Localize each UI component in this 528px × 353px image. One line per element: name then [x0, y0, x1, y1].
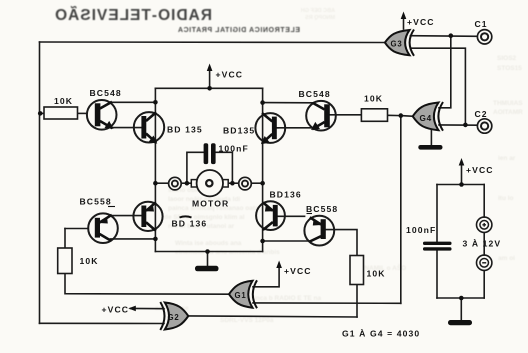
node: motor left — [153, 181, 158, 186]
wire: R1 to Q1 base — [78, 112, 88, 114]
svg-text:SIOS2: SIOS2 — [497, 55, 517, 62]
svg-text:BC558: BC558 — [80, 197, 112, 207]
wire: G4 output — [401, 115, 413, 118]
svg-text:itu lo: itu lo — [498, 195, 514, 202]
wire: G3 lower input to C2 node — [411, 48, 466, 125]
wire: G4 node vertical down — [400, 116, 402, 304]
VCC arrow at G2 (points left) — [128, 306, 136, 312]
op-gate G2 XOR (mirrored, points right) — [160, 302, 188, 330]
svg-text:RADIO-TELEVISÃO: RADIO-TELEVISÃO — [54, 6, 212, 24]
wire: G4 ground stub — [430, 130, 432, 146]
wire: R3 bottom lead to G1 output — [65, 274, 229, 295]
wire: Q2 emitter to Q4 base — [277, 127, 313, 129]
svg-text:BD 136: BD 136 — [172, 219, 208, 229]
transistor Q4 BD135 right — [255, 113, 285, 144]
ground under G4 — [418, 145, 442, 150]
svg-text:THMUIAS: THMUIAS — [493, 100, 523, 107]
svg-text:10K: 10K — [364, 94, 383, 104]
svg-text:100nF: 100nF — [219, 143, 249, 153]
transistor Q2 BC548 top-right — [306, 101, 336, 131]
motor M1 — [191, 170, 228, 196]
svg-text:+VCC: +VCC — [284, 266, 312, 276]
capacitor C-battery 100nF — [423, 242, 452, 251]
svg-text:etnemom du anu amsenta d anbis: etnemom du anu amsenta d anbis — [175, 249, 280, 256]
resistor R1 10K top-left — [44, 107, 78, 119]
resistor R3 10K bottom-left — [58, 248, 72, 274]
wire: top rail from left rail to G3 output — [40, 41, 385, 44]
wire: motor left lead — [155, 182, 168, 184]
svg-text:ABC DEF GH: ABC DEF GH — [301, 8, 335, 14]
wire: motor to jack J2 — [228, 182, 239, 184]
wire: Q7 base lead — [278, 215, 305, 217]
node: Q2 collector at trunk — [260, 100, 265, 105]
wire: battery bottom rail — [437, 297, 484, 299]
wire: battery right leg lower — [483, 271, 485, 298]
svg-text:ELETRONICA DIGITAL PRATICA: ELETRONICA DIGITAL PRATICA — [177, 27, 300, 34]
battery terminal positive — [477, 217, 492, 232]
svg-text:BD 135: BD 135 — [167, 125, 203, 135]
capacitor C-motor 100nF — [204, 143, 216, 164]
svg-text:MNOPQ RS: MNOPQ RS — [305, 15, 335, 21]
wire: left vertical rail — [39, 42, 41, 323]
svg-text:Winta ise abouds ana: Winta ise abouds ana — [175, 240, 242, 247]
wire: G3 top input to C1 — [411, 35, 478, 38]
transistor Q6 BC558 bottom-left — [88, 213, 118, 243]
battery terminal negative — [477, 255, 492, 270]
wire: Q6 collector to trunk dot — [111, 238, 156, 240]
ghost paragraph blobs — [155, 55, 523, 324]
node: C2 branch — [463, 123, 468, 128]
wire: battery top rail — [437, 184, 484, 186]
svg-text:10K: 10K — [54, 96, 73, 106]
wire: R4 down to G2 output corner — [356, 285, 358, 318]
svg-text:+VCC: +VCC — [407, 17, 435, 27]
VCC arrow over G3 — [401, 12, 407, 20]
resistor R4 10K bottom-right — [350, 256, 364, 285]
wire: ground stub center — [207, 252, 209, 267]
wire: Q6 emitter to Q5 base — [112, 215, 142, 217]
wire: Q6 base from R3 — [65, 228, 88, 230]
wire: C1cap bracket left — [187, 152, 204, 183]
node: ground tap center — [205, 249, 210, 254]
svg-text:3 À 12V: 3 À 12V — [463, 238, 502, 248]
wire: +VCC top rail of bridge — [155, 87, 262, 89]
node: +VCC tap bridge — [207, 86, 212, 91]
wire: G2 top input from +VCC arrow — [131, 307, 165, 309]
wire: jack J2 to right trunk — [252, 182, 263, 184]
node: cap bracket right — [230, 181, 235, 186]
wire: Q8 collector to trunk — [263, 240, 310, 242]
node: battery +VCC tap — [459, 182, 464, 187]
wire: jack J1 to motor — [181, 182, 191, 184]
svg-text:BC548: BC548 — [299, 89, 331, 99]
transistor Q8 BC558 bottom-right — [304, 216, 334, 246]
wire: left rail to R1 — [40, 112, 45, 114]
ground battery — [448, 320, 472, 325]
MAIN SCHEMATIC — [40, 16, 485, 324]
ghost show-through headline — [54, 6, 335, 34]
node: Q8 collector at trunk — [260, 239, 265, 244]
op-gate G4 XOR — [413, 102, 443, 131]
node: Q1 collector at trunk — [153, 100, 158, 105]
wire: +VCC stem over G3 — [403, 16, 405, 30]
wire: R2 to G4 output node — [388, 114, 401, 116]
svg-text:am oi: am oi — [498, 255, 515, 262]
svg-text:STOS15: STOS15 — [497, 65, 522, 72]
svg-text:10K: 10K — [80, 256, 99, 266]
resistor R2 10K top-right — [361, 109, 387, 122]
wire: Q1 emitter to Q3 base — [111, 127, 142, 129]
svg-text:+VCC: +VCC — [466, 165, 494, 175]
svg-text:100nF: 100nF — [406, 225, 436, 235]
wire: Q4 emitter wire into bar (shared with Q2 emitter line) — [277, 127, 278, 129]
VCC arrow at G1 — [276, 261, 282, 269]
wire: ground rail of bridge — [155, 251, 262, 253]
node: rail to R1 — [38, 111, 43, 116]
svg-text:ien ar: ien ar — [498, 155, 516, 162]
wire: battery right leg upper — [483, 185, 485, 218]
svg-text:G1: G1 — [235, 291, 247, 300]
node: battery ground tap — [459, 296, 464, 301]
svg-text:AOITAMR: AOITAMR — [493, 109, 523, 116]
svg-text:+VCC: +VCC — [216, 70, 244, 80]
node: Q6 collector at trunk — [153, 237, 158, 242]
transistor Q7 BD136 right — [256, 201, 285, 230]
svg-text:SDRL-VVS 12P0a: SDRL-VVS 12P0a — [220, 317, 274, 324]
wire: G1 lower input line — [253, 302, 401, 304]
wire: Q2 collector to +VCC drop right — [263, 102, 313, 104]
svg-text:10K: 10K — [367, 269, 386, 279]
wire: right bridge trunk vertical — [262, 88, 264, 251]
node: cap bracket left — [185, 181, 190, 186]
jack J1 motor left — [169, 177, 182, 190]
wire: G4 lower input to C2 — [439, 124, 477, 126]
VCC arrow battery — [459, 158, 465, 166]
wire: C1cap bracket right — [216, 152, 233, 183]
jack J2 motor right — [239, 177, 252, 190]
svg-text:G2: G2 — [168, 313, 180, 322]
wire: Q2 base to R2 — [329, 114, 361, 116]
wire: battery +VCC stem — [461, 162, 463, 185]
VCC arrow over bridge — [207, 64, 213, 72]
node: C1 branch — [449, 33, 454, 38]
svg-text:G4: G4 — [420, 114, 433, 123]
wire: R3 top lead — [64, 229, 66, 249]
wire: left bridge trunk vertical — [154, 88, 156, 251]
ground bridge center — [195, 266, 219, 272]
terminal C1 — [477, 30, 491, 44]
svg-text:G1 À G4 = 4030: G1 À G4 = 4030 — [342, 329, 420, 339]
svg-text:MOTOR: MOTOR — [192, 199, 229, 209]
op-gate G1 XOR — [229, 280, 257, 308]
svg-text:C1: C1 — [475, 19, 488, 29]
wire: G4 top input from C1 node — [439, 36, 451, 108]
wire: Q1 collector to +VCC drop left — [111, 101, 155, 103]
transistor Q5 BD136 left — [133, 202, 162, 231]
wire: Q8 base down to R4 — [326, 230, 357, 256]
wire: battery ground stub — [460, 298, 462, 320]
transistor Q3 BD135 left — [134, 112, 164, 144]
svg-text:+VCC: +VCC — [102, 304, 130, 314]
wire: +VCC stem over bridge — [209, 68, 211, 89]
svg-text:BC548: BC548 — [90, 88, 122, 98]
svg-text:G3: G3 — [391, 40, 403, 49]
wire: bottom left to G2 lower input — [40, 322, 165, 324]
terminal C2 — [477, 119, 491, 133]
wire: battery left leg upper — [436, 185, 438, 242]
svg-text:BD136: BD136 — [270, 190, 302, 200]
wire: battery left leg lower — [436, 250, 438, 298]
svg-text:oinca b RADIO E TE na: oinca b RADIO E TE na — [250, 295, 322, 302]
transistor Q1 BC548 top-left — [87, 100, 117, 130]
wire: G2 output line — [188, 316, 357, 317]
svg-text:BD135: BD135 — [223, 125, 255, 135]
svg-text:BC558: BC558 — [306, 204, 338, 214]
op-gate G3 XOR — [385, 30, 414, 56]
node: motor right — [260, 181, 265, 186]
wire: G1 top input to +VCC arrow corner — [253, 264, 279, 287]
svg-text:C2: C2 — [475, 109, 488, 119]
node: G4 output — [399, 113, 404, 118]
wire: battery right leg middle — [483, 233, 485, 255]
